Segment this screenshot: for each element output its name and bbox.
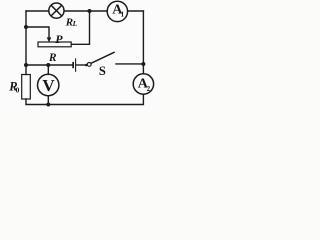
svg-text:2: 2 bbox=[147, 85, 151, 93]
svg-text:P: P bbox=[55, 32, 63, 46]
svg-text:0: 0 bbox=[16, 85, 20, 94]
svg-text:R: R bbox=[48, 52, 57, 64]
svg-text:S: S bbox=[99, 64, 106, 78]
svg-text:1: 1 bbox=[121, 10, 125, 18]
svg-text:L: L bbox=[72, 19, 78, 28]
svg-text:V: V bbox=[42, 76, 55, 95]
